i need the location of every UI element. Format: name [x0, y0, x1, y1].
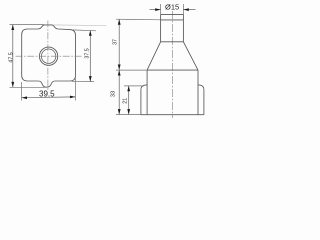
flange left edge	[140, 90, 142, 115]
dia 15 arrow right-pointing	[155, 8, 160, 11]
vertical centerline	[47, 21, 49, 92]
dim 47.5 arrow down	[11, 82, 14, 87]
svg-text:47.5: 47.5	[8, 52, 14, 62]
bottom extension line	[116, 114, 141, 116]
dim 47.5 extension line bottom	[10, 86, 48, 88]
svg-text:Ø15: Ø15	[165, 3, 179, 12]
svg-text:39.5: 39.5	[39, 89, 55, 98]
shoulder line	[147, 69, 198, 71]
dim 37.5 extension line top	[72, 29, 96, 32]
dim 39.5 line	[22, 96, 76, 99]
dim 47.5 arrow up	[11, 25, 14, 30]
dim 47.5 extension line top	[10, 24, 45, 26]
dim 39.5 arrow left	[22, 96, 27, 99]
tube right edge	[182, 14, 184, 41]
bottom edge	[141, 114, 204, 116]
dim 21 extension top (flange top)	[124, 85, 144, 87]
dia 15 dim line right part	[183, 9, 195, 11]
dim 39.5 extension line right	[74, 77, 76, 101]
tube seam line	[161, 19, 184, 21]
dim 37.5 line	[89, 31, 91, 82]
body outline	[22, 25, 76, 87]
faint extension continuation	[53, 24, 107, 27]
dia 15 extension left	[160, 4, 162, 14]
dia 15 extension right	[182, 4, 184, 14]
svg-text:21: 21	[123, 98, 129, 104]
svg-text:37.5: 37.5	[84, 48, 90, 58]
svg-text:33: 33	[110, 91, 116, 97]
dim 47.5 line	[12, 25, 14, 88]
dim 37 extension top (to tube seam)	[116, 18, 161, 21]
center hole inner circle	[41, 49, 55, 63]
tube left edge	[160, 14, 162, 41]
funnel right slope	[183, 42, 198, 70]
dim 37 arrow up	[118, 19, 121, 24]
dim 21 arrow up	[127, 86, 130, 91]
dim 21 line	[128, 86, 130, 115]
vertical centerline	[171, 11, 173, 118]
bore wall right	[197, 70, 199, 115]
step curve right	[198, 85, 204, 90]
dim 33 line	[118, 70, 120, 114]
dim 37 arrow down	[118, 65, 121, 70]
step curve left	[141, 85, 147, 90]
dim 33 arrow down	[118, 109, 121, 114]
dim 37/33 shared extension middle	[116, 69, 147, 71]
tube top edge	[161, 13, 184, 15]
svg-text:37: 37	[112, 39, 118, 45]
dim 21 arrow down	[127, 109, 130, 114]
tube bottom line	[161, 41, 184, 43]
dim 39.5 extension line left	[21, 82, 23, 101]
tube outline	[141, 14, 204, 114]
horizontal centerline	[16, 55, 82, 57]
center hole outer circle	[39, 47, 57, 65]
bore wall left	[146, 70, 148, 115]
dim 37.5 extension line bottom	[72, 80, 94, 82]
dim 37.5 arrow down	[89, 76, 92, 81]
funnel left slope	[147, 42, 161, 70]
dim 33 arrow up	[118, 70, 121, 75]
dim 37.5 arrow up	[89, 30, 92, 35]
dia 15 arrow left-pointing	[183, 8, 188, 11]
dim 37 line	[118, 19, 120, 70]
dia 15 dim line left part	[150, 9, 161, 11]
flange right edge	[203, 90, 205, 115]
dim 39.5 arrow right	[70, 96, 75, 99]
